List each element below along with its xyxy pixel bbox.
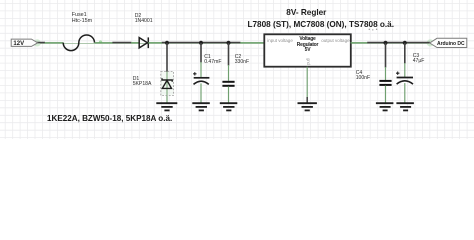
wire C1 bottom to ground (green) <box>200 83 202 102</box>
wire down to C4 (dark) <box>385 43 387 68</box>
voltage regulator U1 box <box>264 34 351 66</box>
wire down to D1 (dark) <box>166 43 168 72</box>
title 8V- Regler <box>286 8 326 17</box>
wire C3 top pin (green) <box>404 63 406 77</box>
wire regulator gnd tail (dark) <box>306 97 308 103</box>
ground under C4 <box>376 103 394 110</box>
label C3 value <box>413 54 425 64</box>
label C2 value <box>235 55 249 65</box>
junction at C3 branch <box>403 41 407 45</box>
wire diode left pin (green) <box>131 42 139 44</box>
ground under C3 <box>396 103 414 110</box>
regulator pin label output voltage <box>321 38 349 43</box>
label D1 5KP18A <box>133 77 152 87</box>
wire fuse left pin (green) <box>45 42 64 44</box>
capacitor C4 symbol <box>379 81 391 85</box>
capacitor C1 symbol (polarized) <box>193 72 209 84</box>
ground under C1 <box>192 103 210 110</box>
diode D2 symbol <box>139 37 148 48</box>
wire regulator input pin (green) <box>240 42 264 44</box>
label C1 value <box>204 55 221 65</box>
net tag 12V <box>11 39 38 47</box>
capacitor C3 symbol (polarized) <box>396 72 413 85</box>
net tag Arduino DC <box>430 38 467 47</box>
wire C2 bottom to ground (green) <box>228 86 230 102</box>
subtitle L7808 list <box>248 20 395 29</box>
wire down to C1 (dark) <box>200 43 202 63</box>
wire diode to regulator (dark, through junctions) <box>162 42 241 44</box>
regulator bottom gnd pin (green) <box>306 67 308 98</box>
wire output rail (dark) <box>367 42 430 44</box>
TVS diode D1 symbol <box>162 78 172 88</box>
bottom note 1KE22A <box>47 114 172 123</box>
junction at D1 branch <box>165 41 169 45</box>
label Fuse1 <box>72 13 92 25</box>
svg-text:Arduino DC: Arduino DC <box>437 41 465 47</box>
label C4 value <box>356 71 370 81</box>
wire C4 bottom to ground (green) <box>385 86 387 103</box>
wire down to C2 (dark) <box>228 43 230 66</box>
regulator body label <box>264 37 351 53</box>
wire 12V tag to fuse (dark) <box>36 42 45 44</box>
wire down to C3 (dark) <box>404 43 406 64</box>
label D2 1N4001 <box>135 14 153 24</box>
regulator pin label input voltage <box>267 38 293 43</box>
wire C2 top pin (green) <box>228 65 230 81</box>
D1 selection dashed box <box>161 72 174 96</box>
wire net green underlay <box>40 42 430 44</box>
wire C4 top pin (green) <box>385 67 387 80</box>
regulator gnd pin label <box>305 58 310 65</box>
junction at C4 branch <box>383 41 387 45</box>
wire C1 top pin (green) <box>200 62 202 78</box>
capacitor C2 symbol <box>222 82 234 86</box>
ground under D1 <box>156 103 177 110</box>
node text artifact under TS7808 <box>369 29 378 31</box>
wire D1 pins and ground pin (green) <box>166 72 168 103</box>
wire fuse to diode (dark) <box>112 42 131 44</box>
wire C3 bottom to ground (green) <box>404 83 406 103</box>
ground under regulator <box>298 103 317 110</box>
fuse F1 body <box>63 35 94 51</box>
node output tag glow <box>427 39 434 46</box>
node pin-end marker after fuse <box>99 40 102 43</box>
wire regulator output pin (green) <box>351 42 368 44</box>
junction at C1 branch <box>199 41 203 45</box>
wire fuse right pin (green) <box>95 42 113 44</box>
wire diode right pin (green) <box>148 42 162 44</box>
svg-text:12V: 12V <box>13 41 24 47</box>
junction at C2 branch <box>226 41 230 45</box>
node input junction A (12V rail) glow at tag tip <box>34 39 41 46</box>
ground under C2 <box>220 103 238 110</box>
